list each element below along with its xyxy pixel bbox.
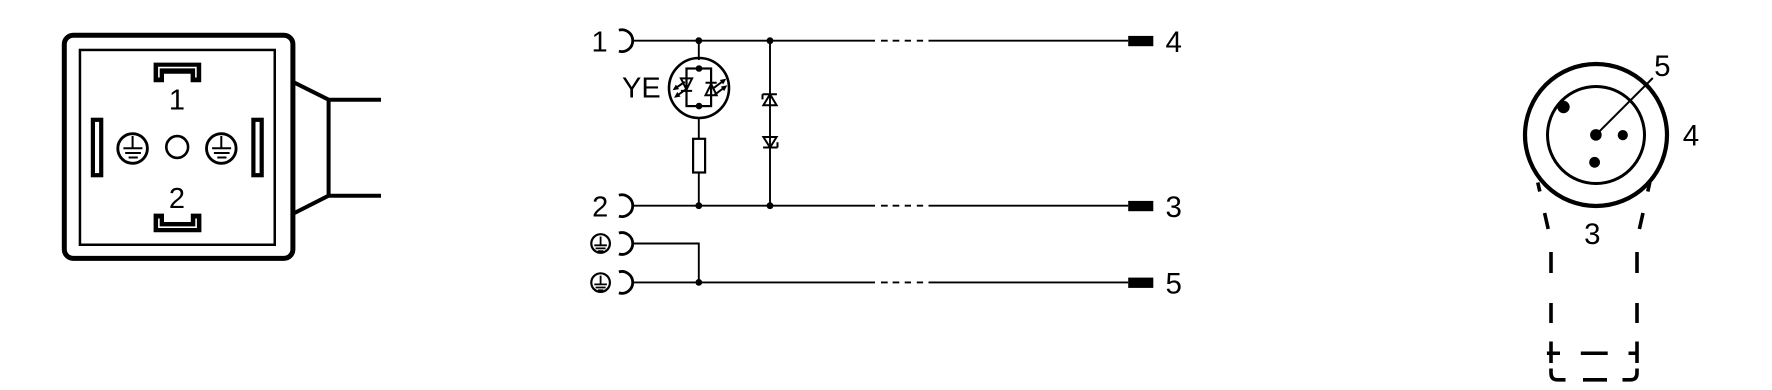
leader line pin 5 [1596, 78, 1653, 135]
svg-text:3: 3 [1166, 191, 1182, 224]
LED D2 emission arrows [713, 79, 727, 95]
zener diode Z2 [763, 137, 777, 148]
svg-text:4: 4 [1683, 119, 1699, 152]
suppressor branch wire [769, 41, 771, 206]
wire PE-5 solid left [633, 281, 875, 283]
PE contact lower (schematic) [591, 273, 610, 292]
connector A inner face [80, 50, 275, 245]
pin 4 dot (right) [1618, 130, 1628, 140]
svg-text:1: 1 [592, 26, 608, 58]
cable break dashes row PE [881, 281, 923, 283]
cable gland [292, 81, 382, 214]
LED D1 emission arrows [673, 82, 687, 98]
pin 2 contact [154, 214, 202, 233]
cable break dashes row 1 [881, 40, 923, 42]
LED U1 housing circle [669, 58, 729, 118]
svg-text:4: 4 [1166, 26, 1182, 59]
wire 1-4 solid right [929, 40, 1129, 42]
wire PE-5 solid right [929, 281, 1129, 283]
socket contact PE lower (arc) [619, 272, 633, 294]
terminal pin 4 [1128, 36, 1153, 46]
wire LED to resistor [698, 118, 700, 139]
junction J1 LED tap [695, 37, 702, 44]
PE contact left [118, 134, 148, 164]
PE contact upper (schematic) [591, 234, 610, 253]
terminal pin 3 [1128, 201, 1153, 211]
svg-text:5: 5 [1166, 268, 1182, 301]
junction J4 suppressor tap [767, 202, 774, 209]
cable break dashes row 2 [881, 205, 923, 207]
PE contact right [207, 134, 237, 164]
pin 5 dot (center) [1590, 129, 1602, 141]
svg-text:2: 2 [169, 183, 185, 215]
LED D2 right (triangle up + bar) [706, 83, 717, 95]
connector B body dashed right [1623, 183, 1650, 380]
pin 1 contact [154, 63, 202, 83]
coding notch dot [1557, 101, 1569, 113]
resistor R1 [693, 139, 705, 173]
socket contact 2 (arc) [619, 195, 633, 217]
keyway slot left [93, 120, 101, 175]
wire R1 to node 2 [698, 173, 700, 206]
svg-text:2: 2 [592, 191, 608, 223]
junction J5 PE join [695, 279, 702, 286]
wire 2-3 solid right [929, 205, 1129, 207]
connector B inner circle [1548, 87, 1645, 184]
LED internal loop [687, 69, 712, 107]
node dot LED top [696, 65, 703, 72]
connector A outer outline [64, 35, 293, 258]
terminal pin 5 [1128, 278, 1153, 288]
cable clamp dashed line [1547, 351, 1638, 355]
body bottom dash [1583, 378, 1607, 382]
wire LED top lead [698, 41, 700, 60]
keyway slot right [253, 120, 261, 175]
junction J3 resistor tap [695, 202, 702, 209]
svg-text:YE: YE [622, 72, 661, 104]
socket contact PE upper (arc) [619, 233, 633, 255]
svg-text:5: 5 [1654, 50, 1670, 83]
socket contact 1 (arc) [619, 30, 633, 52]
svg-text:1: 1 [169, 85, 185, 117]
center hole [166, 136, 188, 158]
junction J2 suppressor tap [767, 37, 774, 44]
LED D1 left (triangle down + bar) [681, 78, 692, 91]
connector B outer circle [1525, 64, 1667, 206]
wire 2-3 solid left [633, 205, 875, 207]
node dot LED bottom [696, 103, 703, 110]
wire 1-4 solid left [633, 40, 875, 42]
svg-text:3: 3 [1584, 218, 1600, 251]
zener diode Z1 [763, 94, 777, 105]
pin 3 dot (bottom) [1589, 157, 1600, 168]
connector B body dashed left [1538, 183, 1566, 380]
wire PE upper to junction [633, 244, 699, 283]
